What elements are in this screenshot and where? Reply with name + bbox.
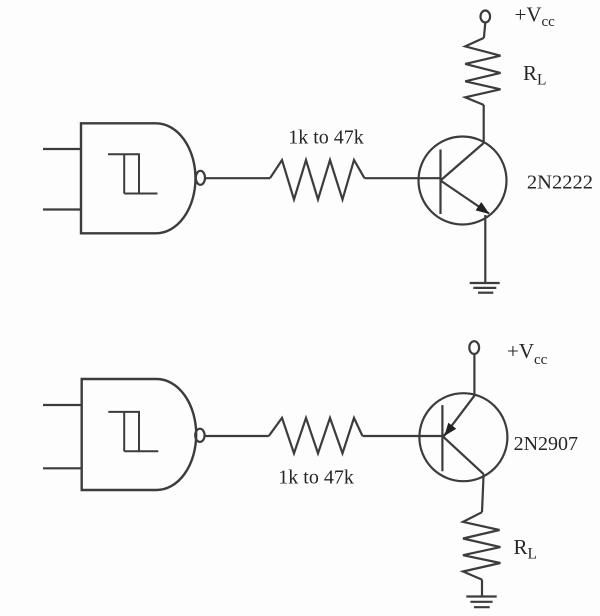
- svg-text:2N2907: 2N2907: [514, 433, 578, 455]
- wire: Q1 emitter to ground: [484, 215, 486, 283]
- resistor R2: [269, 418, 363, 453]
- +Vcc terminal (bottom): [469, 341, 479, 354]
- wire: U2 input A: [43, 404, 81, 406]
- hysteresis symbol (U1): [108, 154, 158, 193]
- Schmitt NAND gate U1 body: [81, 123, 195, 233]
- svg-text:RL: RL: [514, 535, 537, 563]
- inversion bubble (U2 output): [195, 429, 204, 442]
- wire: U2 output to R2: [205, 435, 269, 437]
- transistor Q1 (2N2222, NPN): [419, 137, 507, 225]
- hysteresis symbol (U2): [108, 412, 158, 451]
- ground (bottom circuit): [466, 597, 496, 608]
- wire: U1 output to R1: [206, 177, 270, 179]
- wire: U2 input B: [43, 467, 81, 469]
- svg-text:1k to 47k: 1k to 47k: [288, 127, 364, 149]
- svg-text:+Vcc: +Vcc: [507, 339, 548, 368]
- wire: Q2 collector to RL2: [482, 474, 484, 512]
- wire: R1 to Q1 base: [365, 177, 441, 179]
- svg-text:2N2222: 2N2222: [527, 172, 593, 194]
- resistor R1: [270, 160, 365, 200]
- wire: +Vcc terminal to Q2 emitter: [473, 354, 475, 395]
- +Vcc terminal (top): [481, 11, 491, 23]
- inversion bubble (U1 output): [196, 171, 205, 185]
- wire: R2 to Q2 base: [363, 435, 443, 437]
- Schmitt NAND gate U2 body: [82, 379, 197, 490]
- svg-text:1k to 47k: 1k to 47k: [278, 467, 354, 489]
- svg-text:RL: RL: [523, 61, 546, 89]
- wire: RL2 to ground: [481, 580, 483, 597]
- wire: Q1 collector to RL1: [483, 105, 485, 143]
- svg-text:+Vcc: +Vcc: [515, 2, 556, 30]
- transistor Q2 (2N2907, PNP): [419, 393, 507, 481]
- ground (top circuit): [470, 283, 500, 293]
- wire: U1 input B: [43, 208, 80, 210]
- wire: U1 input A: [43, 148, 80, 150]
- resistor RL1: [465, 38, 500, 105]
- resistor RL2: [463, 512, 500, 579]
- wire: RL1 to +Vcc terminal: [484, 23, 485, 38]
